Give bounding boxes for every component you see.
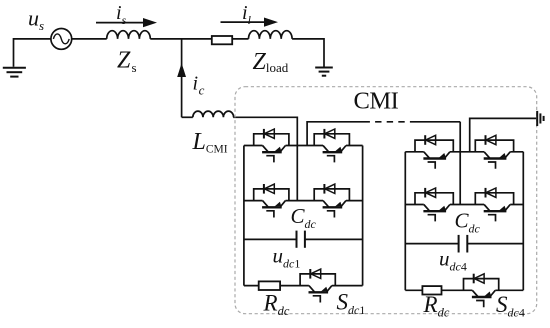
IGBT T1 upper-left cell 1: IGBT gate bar	[262, 151, 282, 153]
IGBT T1 upper-left cell 1: antiparallel diode loop	[254, 134, 289, 146]
svg-text:Sdc1: Sdc1	[337, 290, 366, 318]
IGBT T2 upper-right cell 2: IGBT collector/emitter slants	[484, 152, 510, 158]
svg-text:Sdc4: Sdc4	[496, 292, 525, 320]
IGBT switch S_dc1: IGBT emitter arrow	[321, 287, 328, 292]
inductor L_CMI	[193, 111, 234, 117]
svg-text:LCMI: LCMI	[192, 129, 228, 156]
svg-text:Zs: Zs	[117, 48, 137, 76]
IGBT T3 lower-left cell 2: IGBT gate bar	[423, 210, 446, 212]
IGBT T4 lower-right cell 2: antiparallel diode loop	[475, 193, 513, 205]
wire: source to left ground	[14, 39, 51, 67]
cell 2 right DC rail	[522, 152, 524, 290]
wire: L_CMI into cell 1	[233, 117, 297, 200]
resistor of Zload	[212, 36, 232, 44]
svg-text:ic: ic	[193, 73, 205, 98]
IGBT T1 upper-left cell 1: diode triangle	[264, 129, 274, 138]
IGBT switch S_dc4: diode triangle	[474, 274, 484, 283]
IGBT T4 lower-right cell 1: IGBT emitter arrow	[335, 202, 342, 207]
IGBT T1 upper-left cell 1: IGBT emitter arrow	[275, 147, 282, 152]
IGBT T4 lower-right cell 2: diode triangle	[486, 188, 496, 197]
wire: Zs to junction to Zload resistor	[150, 38, 212, 40]
IGBT switch S_dc1: diode triangle	[311, 269, 321, 278]
cell 1 left DC rail	[243, 146, 245, 286]
svg-text:Rdc: Rdc	[263, 291, 290, 319]
IGBT T2 upper-right cell 1: IGBT emitter arrow	[335, 147, 342, 152]
wire: cell 1 AC out to next cell (dashed cascade link)	[307, 122, 363, 146]
IGBT switch S_dc4: IGBT collector/emitter slants	[472, 290, 495, 296]
IGBT T4 lower-right cell 2: IGBT gate bar	[484, 210, 507, 212]
IGBT T1 upper-left cell 2: IGBT gate bar	[423, 157, 446, 159]
IGBT T3 lower-left cell 2: gate lead	[428, 215, 436, 222]
arrow i_l	[221, 21, 266, 23]
IGBT T3 lower-left cell 1: antiparallel diode loop	[254, 189, 289, 201]
discharge branch wire cell 1	[244, 285, 363, 287]
IGBT switch S_dc1: IGBT gate bar	[309, 291, 329, 293]
svg-text:Zload: Zload	[253, 49, 289, 75]
CMI dashed boundary box	[235, 87, 537, 314]
IGBT T2 upper-right cell 2: gate lead	[488, 162, 496, 169]
wire: source to Zs	[72, 38, 107, 40]
wire: cell 2 lower leg	[405, 204, 523, 206]
svg-text:Cdc: Cdc	[455, 209, 481, 236]
IGBT T1 upper-left cell 1: gate lead	[266, 156, 274, 163]
IGBT T4 lower-right cell 2: gate lead	[488, 215, 496, 222]
IGBT switch S_dc4: antiparallel diode loop	[464, 279, 499, 291]
IGBT T2 upper-right cell 1: diode cathode bar	[323, 129, 325, 139]
svg-text:is: is	[116, 2, 127, 27]
inductor Zs	[107, 31, 151, 39]
IGBT T4 lower-right cell 2: IGBT collector/emitter slants	[484, 205, 510, 211]
resistor R_dc cell 1	[259, 281, 280, 290]
wire: cell 1 upper leg	[244, 145, 363, 147]
IGBT switch S_dc1: antiparallel diode loop	[300, 274, 335, 286]
svg-text:Cdc: Cdc	[291, 204, 317, 231]
IGBT T2 upper-right cell 2: diode triangle	[486, 135, 496, 144]
IGBT T3 lower-left cell 1: diode triangle	[264, 184, 274, 193]
IGBT T2 upper-right cell 1: antiparallel diode loop	[314, 134, 349, 146]
svg-text:udc4: udc4	[439, 247, 467, 274]
inductor of Zload	[248, 31, 292, 39]
IGBT T2 upper-right cell 2: antiparallel diode loop	[475, 140, 513, 152]
IGBT T4 lower-right cell 2: diode cathode bar	[485, 188, 487, 198]
wire: cell 1 lower leg	[244, 200, 363, 202]
IGBT T4 lower-right cell 1: gate lead	[327, 211, 335, 218]
IGBT T3 lower-left cell 1: IGBT emitter arrow	[275, 202, 282, 207]
IGBT T4 lower-right cell 2: IGBT emitter arrow	[499, 206, 506, 211]
IGBT switch S_dc1: IGBT collector/emitter slants	[309, 286, 332, 292]
wire: resistor to Zload coil	[232, 38, 248, 40]
wire: cell 2 AC out to ground	[470, 118, 537, 151]
IGBT T2 upper-right cell 2: IGBT emitter arrow	[499, 153, 506, 158]
IGBT T4 lower-right cell 1: diode cathode bar	[323, 184, 325, 194]
IGBT T3 lower-left cell 1: IGBT gate bar	[262, 206, 282, 208]
wire: Zload to right ground	[292, 39, 324, 67]
IGBT T4 lower-right cell 1: IGBT collector/emitter slants	[323, 201, 346, 207]
wire: corner to L_CMI	[182, 116, 193, 118]
IGBT T1 upper-left cell 2: IGBT collector/emitter slants	[424, 152, 450, 158]
IGBT switch S_dc4: diode cathode bar	[473, 274, 475, 284]
AC source sine wave	[53, 34, 69, 44]
IGBT T3 lower-left cell 2: IGBT emitter arrow	[439, 206, 446, 211]
svg-text:il: il	[242, 2, 252, 27]
cell 1 right DC rail	[362, 146, 364, 286]
IGBT T2 upper-right cell 1: gate lead	[327, 156, 335, 163]
IGBT switch S_dc1: gate lead	[313, 296, 321, 303]
IGBT T1 upper-left cell 1: diode cathode bar	[263, 129, 265, 139]
arrow i_c (upward)	[177, 63, 186, 77]
IGBT T1 upper-left cell 2: antiparallel diode loop	[415, 140, 453, 152]
IGBT T1 upper-left cell 2: diode cathode bar	[424, 135, 426, 145]
wire: junction down (i_c branch)	[181, 39, 183, 117]
IGBT T4 lower-right cell 1: diode triangle	[325, 184, 335, 193]
cell 2 left DC rail	[404, 152, 406, 290]
IGBT T1 upper-left cell 1: IGBT collector/emitter slants	[263, 146, 286, 152]
IGBT T1 upper-left cell 2: IGBT emitter arrow	[439, 153, 446, 158]
IGBT T4 lower-right cell 1: antiparallel diode loop	[314, 189, 349, 201]
IGBT T2 upper-right cell 2: diode cathode bar	[485, 135, 487, 145]
IGBT T3 lower-left cell 2: IGBT collector/emitter slants	[424, 205, 450, 211]
IGBT T3 lower-left cell 2: antiparallel diode loop	[415, 193, 453, 205]
capacitor C_dc cell 2 wires	[405, 243, 523, 245]
discharge branch wire cell 2	[405, 289, 523, 291]
ground (right of CMI, rotated)	[537, 111, 543, 126]
IGBT T3 lower-left cell 1: IGBT collector/emitter slants	[263, 201, 286, 207]
IGBT T4 lower-right cell 1: IGBT gate bar	[323, 206, 343, 208]
IGBT T1 upper-left cell 2: diode triangle	[426, 135, 436, 144]
capacitor C_dc cell 2 plates	[459, 235, 468, 253]
IGBT T1 upper-left cell 2: gate lead	[428, 162, 436, 169]
IGBT T2 upper-right cell 1: IGBT collector/emitter slants	[323, 146, 346, 152]
IGBT T3 lower-left cell 2: diode cathode bar	[424, 188, 426, 198]
arrow i_s	[96, 22, 145, 24]
IGBT switch S_dc4: gate lead	[476, 301, 484, 308]
ground (under Zload)	[315, 68, 333, 76]
IGBT switch S_dc1: diode cathode bar	[309, 269, 311, 279]
IGBT switch S_dc4: IGBT emitter arrow	[484, 292, 491, 297]
IGBT T2 upper-right cell 1: diode triangle	[325, 129, 335, 138]
IGBT T2 upper-right cell 1: IGBT gate bar	[323, 151, 343, 153]
capacitor C_dc cell 1 wires	[244, 238, 363, 240]
IGBT T3 lower-left cell 1: gate lead	[266, 211, 274, 218]
IGBT T2 upper-right cell 2: IGBT gate bar	[484, 157, 507, 159]
IGBT T3 lower-left cell 2: diode triangle	[426, 188, 436, 197]
svg-text:us: us	[28, 6, 44, 34]
ground (left, under source)	[3, 68, 26, 77]
capacitor C_dc cell 1 plates	[297, 231, 305, 248]
svg-text:CMI: CMI	[354, 88, 399, 115]
IGBT switch S_dc4: IGBT gate bar	[472, 296, 492, 298]
svg-text:Rdc: Rdc	[423, 292, 450, 320]
wire: cell 2 upper leg	[405, 151, 523, 153]
AC source u_s circle	[51, 29, 72, 50]
resistor R_dc cell 2	[422, 286, 441, 294]
IGBT T3 lower-left cell 1: diode cathode bar	[263, 184, 265, 194]
wire: cascade link into cell 2 lower leg midpoint	[459, 122, 461, 205]
